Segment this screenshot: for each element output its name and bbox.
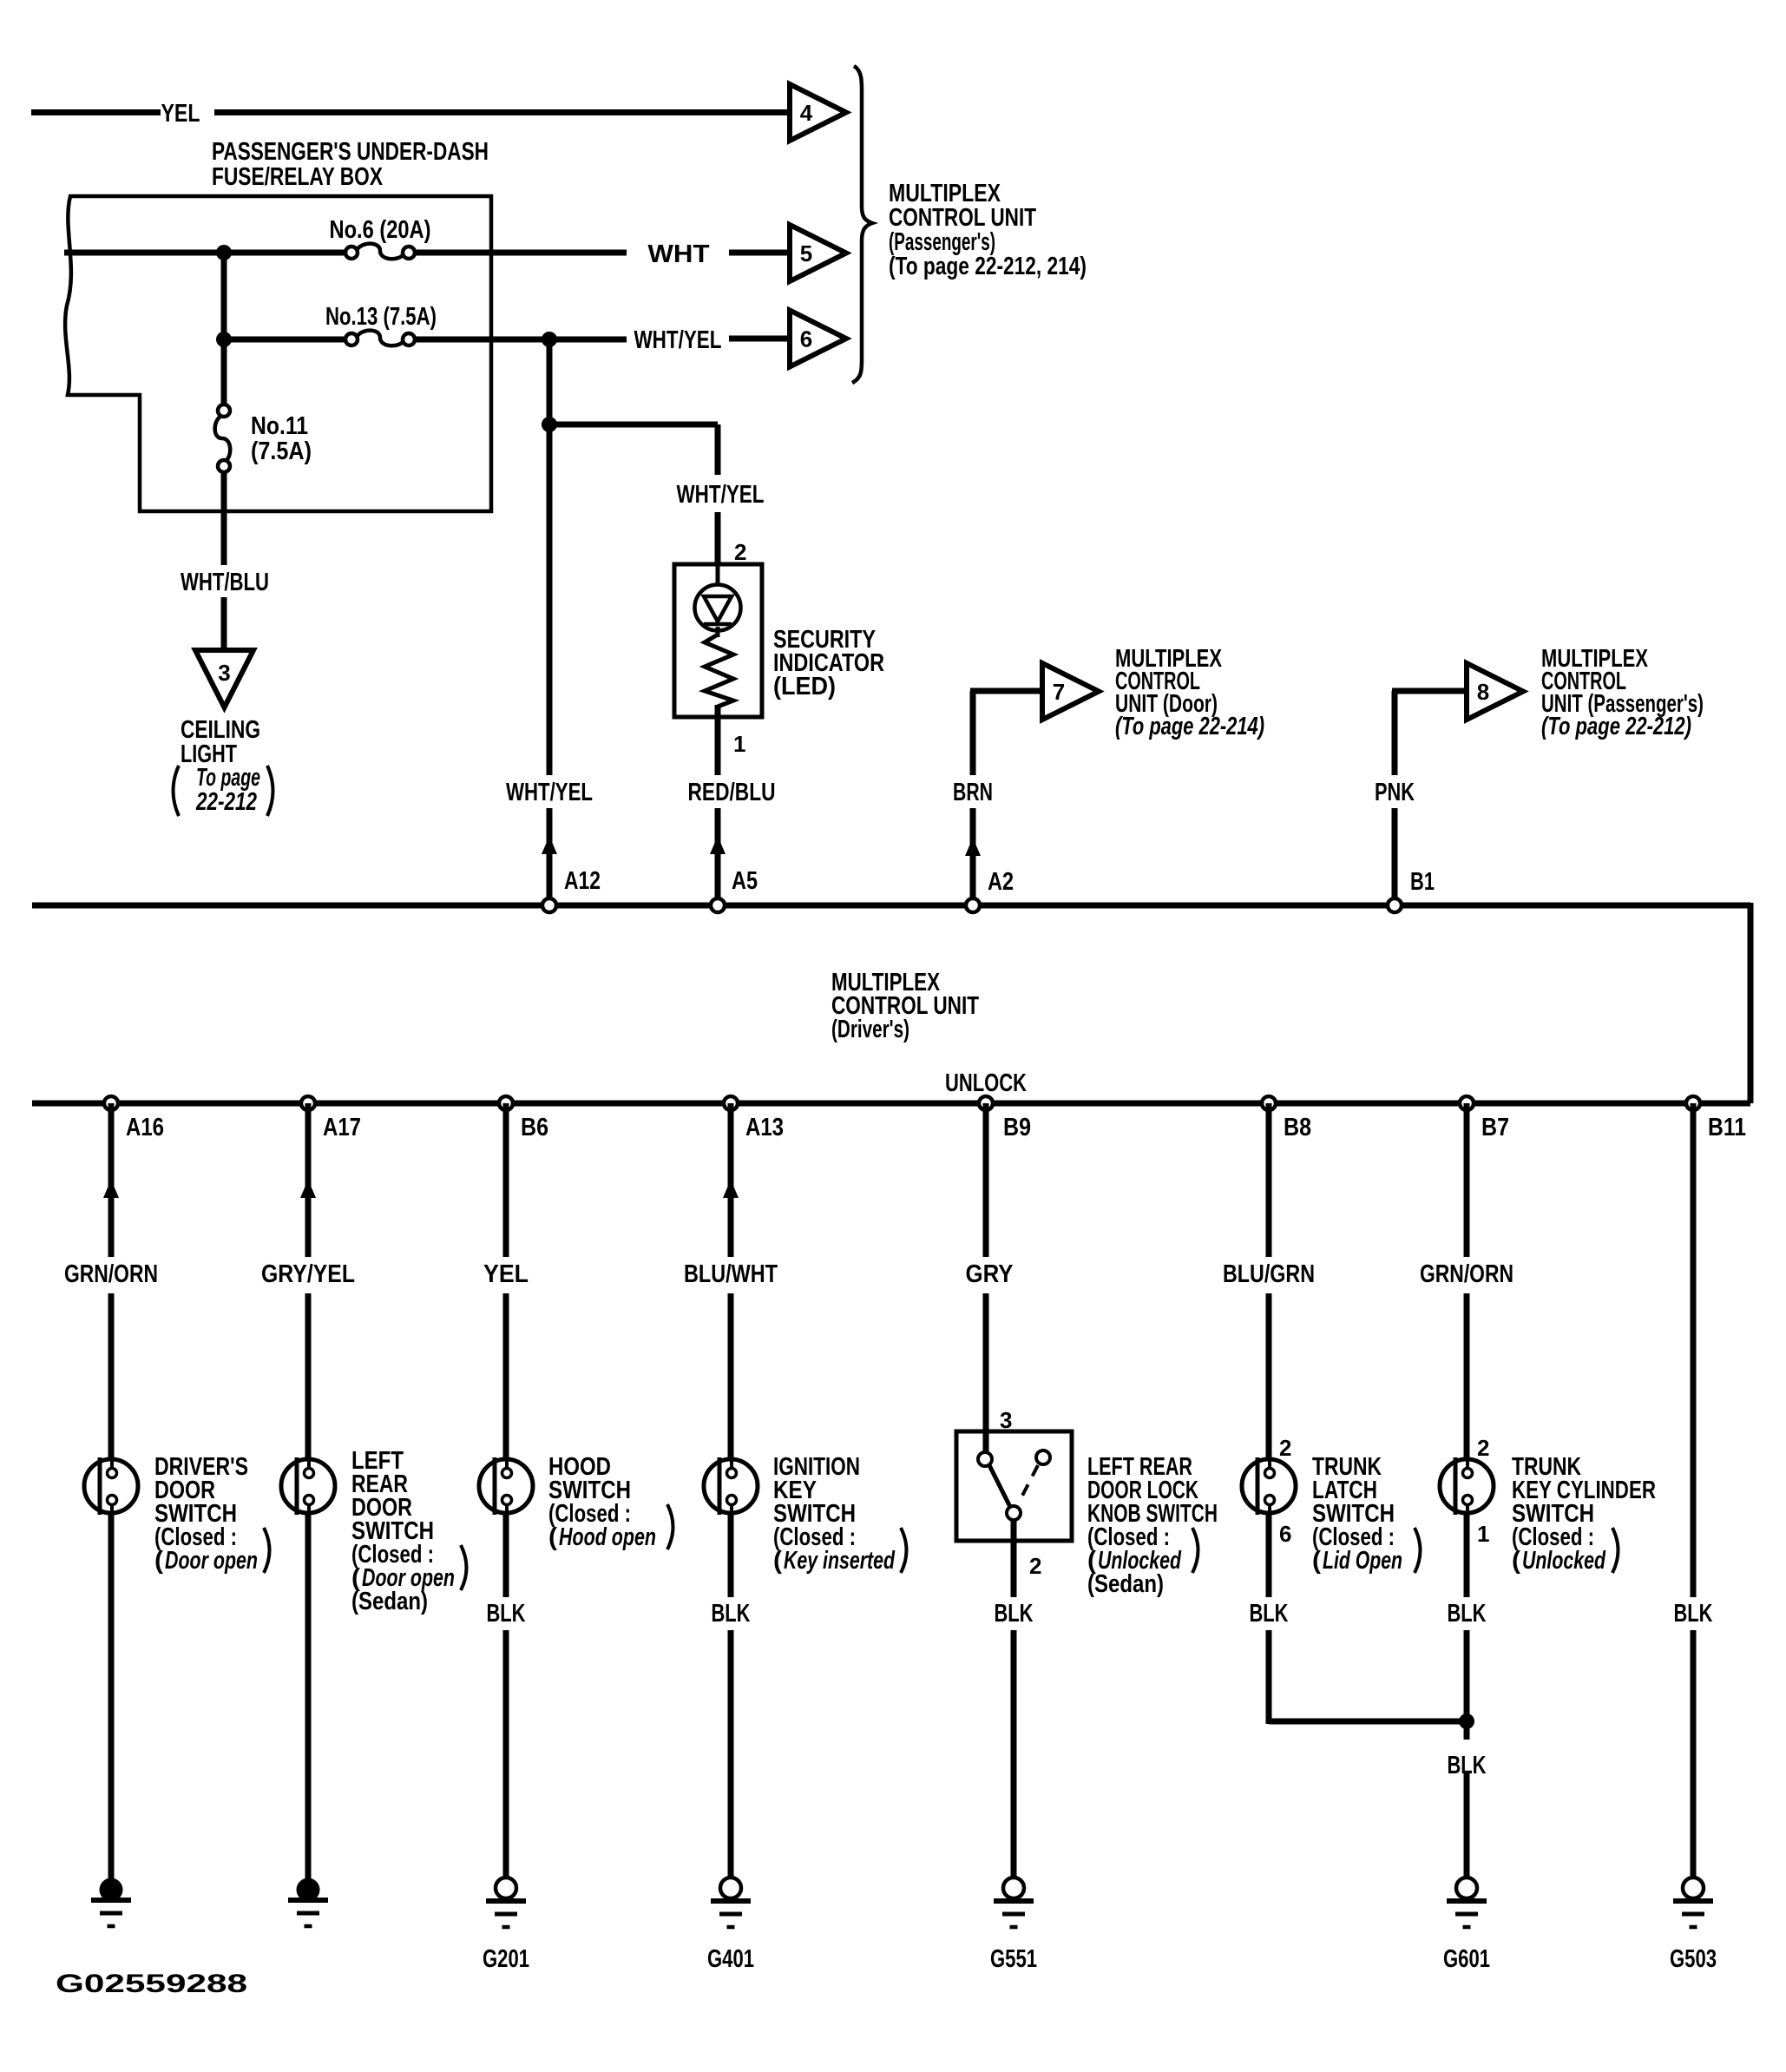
connector arrow 4 bbox=[790, 84, 846, 141]
label left rear door lock knob switch bbox=[1087, 1453, 1218, 1598]
label hood switch bbox=[548, 1453, 673, 1551]
security LED bbox=[695, 566, 741, 637]
fuse No.6 (20A) bbox=[330, 216, 431, 259]
svg-text:UNLOCK: UNLOCK bbox=[945, 1069, 1027, 1097]
connector arrow 8 bbox=[1467, 663, 1523, 720]
wire BLK trunk latch switch bbox=[1250, 1515, 1289, 1724]
svg-text:GRN/ORN: GRN/ORN bbox=[64, 1260, 158, 1288]
ground G601 bbox=[1443, 1878, 1490, 1973]
svg-text:B8: B8 bbox=[1284, 1114, 1311, 1141]
wire fuse row No.13 bbox=[224, 339, 791, 339]
junction No.13 row / WHT-YEL drop bbox=[542, 332, 557, 347]
svg-text:YEL: YEL bbox=[483, 1260, 529, 1288]
wire WHT/BLU to ceiling light bbox=[221, 472, 227, 654]
svg-text:(LED): (LED) bbox=[773, 673, 836, 701]
driver's door switch bbox=[84, 1457, 138, 1515]
wire branch to security indicator bbox=[547, 424, 718, 566]
fuse No.13 (7.5A) bbox=[325, 303, 437, 345]
wire BLU/GRN from B8 bbox=[1223, 1103, 1315, 1457]
label driver's door switch bbox=[154, 1453, 270, 1575]
arrowhead on A12 wire bbox=[542, 836, 557, 854]
svg-text:B11: B11 bbox=[1708, 1114, 1746, 1141]
svg-text:PNK: PNK bbox=[1375, 779, 1415, 806]
left rear door lock knob switch box bbox=[956, 1431, 1072, 1541]
svg-text:WHT/YEL: WHT/YEL bbox=[677, 481, 765, 509]
wire BLU/WHT from A13 bbox=[684, 1103, 778, 1457]
svg-text:A13: A13 bbox=[745, 1114, 784, 1141]
node B1 bbox=[1388, 898, 1402, 912]
trunk latch switch bbox=[1242, 1457, 1296, 1515]
node A5 bbox=[711, 898, 725, 912]
svg-text:G02559288: G02559288 bbox=[56, 1970, 247, 1998]
hood switch bbox=[479, 1457, 533, 1515]
wire trunk latch to trunk key cylinder junction bbox=[1269, 1719, 1470, 1725]
wire RED/BLU to A5 bbox=[715, 705, 721, 899]
svg-text:B9: B9 bbox=[1003, 1114, 1031, 1141]
svg-text:3: 3 bbox=[218, 660, 230, 686]
svg-text:(Sedan): (Sedan) bbox=[351, 1588, 428, 1615]
label trunk latch switch bbox=[1312, 1453, 1421, 1575]
connector arrow 5 bbox=[790, 225, 846, 281]
svg-text:BLK: BLK bbox=[487, 1600, 526, 1628]
svg-text:G503: G503 bbox=[1670, 1945, 1717, 1973]
svg-text:2: 2 bbox=[1279, 1435, 1291, 1461]
fuse No.11 (7.5A) vertical bbox=[215, 405, 312, 472]
connector arrow 7 bbox=[1042, 663, 1099, 720]
svg-text:2: 2 bbox=[1029, 1553, 1041, 1579]
svg-text:A16: A16 bbox=[126, 1114, 164, 1141]
security indicator box bbox=[674, 564, 762, 717]
ground G551 bbox=[990, 1878, 1037, 1973]
svg-text:Hood open: Hood open bbox=[559, 1523, 656, 1551]
svg-text:Unlocked: Unlocked bbox=[1522, 1547, 1606, 1575]
label ceiling light bbox=[174, 716, 273, 816]
label security indicator bbox=[773, 626, 884, 701]
svg-text:5: 5 bbox=[800, 240, 812, 266]
svg-text:B6: B6 bbox=[521, 1114, 548, 1141]
svg-text:A12: A12 bbox=[564, 867, 601, 895]
fuse/relay box outline with torn left edge bbox=[65, 196, 491, 511]
svg-text:GRY/YEL: GRY/YEL bbox=[261, 1260, 355, 1288]
label multiplex control unit passenger top bbox=[889, 180, 1087, 280]
wire left rear door switch to ground bbox=[305, 1515, 312, 1880]
svg-text:(To page 22-212): (To page 22-212) bbox=[1541, 713, 1691, 740]
label ignition key switch bbox=[773, 1453, 907, 1575]
ground G401 bbox=[707, 1878, 754, 1973]
svg-text:BLK: BLK bbox=[712, 1600, 751, 1628]
svg-text:8: 8 bbox=[1477, 679, 1489, 705]
security resistor bbox=[705, 635, 733, 707]
ground driver's door switch bbox=[91, 1878, 131, 1927]
svg-text:No.13 (7.5A): No.13 (7.5A) bbox=[325, 303, 437, 331]
svg-text:WHT: WHT bbox=[648, 240, 710, 268]
ignition key switch bbox=[704, 1457, 758, 1515]
svg-text:WHT/YEL: WHT/YEL bbox=[634, 326, 722, 354]
svg-text:BLU/GRN: BLU/GRN bbox=[1223, 1260, 1315, 1288]
wire YEL feed to connector 4 bbox=[31, 109, 791, 115]
svg-text:WHT/BLU: WHT/BLU bbox=[181, 569, 269, 596]
bus line multiplex control unit driver top bbox=[32, 903, 1750, 909]
wire GRN/ORN from B7 bbox=[1420, 1103, 1514, 1457]
svg-text:6: 6 bbox=[1279, 1521, 1291, 1547]
svg-text:RED/BLU: RED/BLU bbox=[688, 779, 776, 806]
svg-text:Door open: Door open bbox=[165, 1547, 258, 1575]
right vertical bus link bbox=[1748, 903, 1754, 1103]
node B9 bbox=[979, 1096, 1031, 1141]
svg-text:GRN/ORN: GRN/ORN bbox=[1420, 1260, 1514, 1288]
wire BLK ignition key switch to G401 bbox=[712, 1515, 751, 1877]
junction feed / No.13 row bbox=[216, 332, 232, 347]
wire fuse row No.6 bbox=[64, 250, 791, 256]
node A13 bbox=[724, 1096, 784, 1141]
svg-text:(: ( bbox=[1512, 1547, 1520, 1575]
wire GRY from B9 bbox=[966, 1103, 1014, 1452]
svg-text:2: 2 bbox=[734, 539, 746, 565]
junction feed / No.6 row bbox=[216, 245, 232, 260]
wire knob switch to G551 bbox=[1011, 1520, 1017, 1877]
arrowhead on A5 wire bbox=[710, 836, 726, 854]
wire GRN/ORN from A16 bbox=[64, 1103, 158, 1457]
bus line multiplex control unit driver bottom bbox=[32, 1101, 1750, 1107]
node B11 bbox=[1686, 1096, 1746, 1141]
wire BLK hood switch to G201 bbox=[487, 1515, 526, 1877]
svg-text:G401: G401 bbox=[707, 1945, 754, 1973]
junction trunk ground wires bbox=[1459, 1714, 1474, 1729]
label multiplex control unit passenger's (arrow 8) bbox=[1541, 645, 1704, 740]
svg-text:A2: A2 bbox=[988, 868, 1014, 896]
svg-text:No.6 (20A): No.6 (20A) bbox=[330, 216, 431, 244]
node B8 bbox=[1262, 1096, 1311, 1141]
label trunk key cylinder switch bbox=[1512, 1453, 1656, 1575]
svg-text:2: 2 bbox=[1477, 1435, 1489, 1461]
svg-text:1: 1 bbox=[1477, 1521, 1489, 1547]
svg-text:G201: G201 bbox=[483, 1945, 529, 1973]
wire BLK trunk key cylinder switch bbox=[1448, 1515, 1487, 1740]
label passenger's under-dash fuse/relay box bbox=[212, 138, 489, 191]
svg-text:(: ( bbox=[154, 1547, 163, 1575]
svg-text:7: 7 bbox=[1053, 679, 1065, 705]
node A2 bbox=[966, 898, 980, 912]
svg-text:BLK: BLK bbox=[1448, 1600, 1487, 1628]
svg-text:No.11: No.11 bbox=[251, 412, 308, 440]
ground G201 bbox=[483, 1878, 529, 1973]
wire PNK to B1 bbox=[1392, 691, 1468, 899]
svg-text:BLK: BLK bbox=[1250, 1600, 1289, 1628]
svg-text:FUSE/RELAY BOX: FUSE/RELAY BOX bbox=[212, 163, 384, 191]
svg-text:G551: G551 bbox=[990, 1945, 1037, 1973]
wire driver's door switch to ground bbox=[108, 1515, 115, 1880]
svg-text:B7: B7 bbox=[1481, 1114, 1509, 1141]
svg-text:B1: B1 bbox=[1410, 868, 1435, 896]
ground left rear door switch bbox=[288, 1878, 328, 1927]
svg-text:BLK: BLK bbox=[995, 1600, 1034, 1628]
svg-text:PASSENGER'S UNDER-DASH: PASSENGER'S UNDER-DASH bbox=[212, 138, 489, 166]
svg-text:BLU/WHT: BLU/WHT bbox=[684, 1260, 778, 1288]
svg-text:(Sedan): (Sedan) bbox=[1087, 1570, 1164, 1598]
svg-text:YEL: YEL bbox=[161, 100, 200, 128]
svg-text:(To page 22-214): (To page 22-214) bbox=[1115, 713, 1264, 740]
label left rear door switch bbox=[351, 1447, 467, 1615]
junction WHT/YEL branch bbox=[542, 417, 557, 432]
node A17 bbox=[301, 1096, 361, 1141]
trunk key cylinder switch bbox=[1440, 1457, 1494, 1515]
svg-text:Lid Open: Lid Open bbox=[1323, 1547, 1402, 1575]
knob switch contacts and lever bbox=[978, 1450, 1050, 1520]
svg-text:(7.5A): (7.5A) bbox=[251, 437, 312, 465]
svg-text:(: ( bbox=[1312, 1547, 1321, 1575]
connector arrow 6 bbox=[790, 311, 846, 367]
wire YEL from B6 bbox=[483, 1103, 529, 1457]
svg-text:A5: A5 bbox=[732, 867, 758, 895]
svg-text:A17: A17 bbox=[323, 1114, 361, 1141]
svg-text:(: ( bbox=[773, 1547, 782, 1575]
svg-text:BLK: BLK bbox=[1448, 1752, 1487, 1779]
svg-text:GRY: GRY bbox=[966, 1260, 1014, 1288]
svg-text:6: 6 bbox=[800, 326, 812, 352]
label multiplex control unit driver's bbox=[831, 969, 979, 1043]
svg-text:WHT/YEL: WHT/YEL bbox=[506, 779, 593, 806]
svg-text:(Driver's): (Driver's) bbox=[831, 1016, 909, 1043]
wire BLK to G601 bbox=[1448, 1752, 1487, 1877]
left rear door switch bbox=[281, 1457, 335, 1515]
vertical feed wire inside fuse box bbox=[221, 253, 227, 404]
brace multiplex control unit passenger bbox=[852, 66, 872, 383]
svg-text:BRN: BRN bbox=[953, 779, 993, 806]
wire WHT/YEL vertical to A12 bbox=[547, 339, 553, 899]
label multiplex control unit door bbox=[1115, 645, 1264, 740]
connector arrow 3 (down, to ceiling light) bbox=[195, 650, 253, 707]
wire from B11 bbox=[1691, 1103, 1697, 1879]
svg-text:(To page 22-212, 214): (To page 22-212, 214) bbox=[889, 253, 1087, 280]
svg-text:4: 4 bbox=[800, 100, 813, 126]
svg-text:G601: G601 bbox=[1443, 1945, 1490, 1973]
node A16 bbox=[104, 1096, 164, 1141]
wire GRY/YEL from A17 bbox=[261, 1103, 355, 1457]
svg-text:3: 3 bbox=[1000, 1407, 1012, 1433]
arrowhead on A2 wire bbox=[965, 838, 981, 856]
svg-text:22-212: 22-212 bbox=[195, 788, 257, 816]
node B7 bbox=[1460, 1096, 1509, 1141]
svg-text:1: 1 bbox=[733, 731, 745, 757]
svg-text:Key inserted: Key inserted bbox=[784, 1547, 896, 1575]
wire BRN to A2 bbox=[970, 691, 1044, 899]
svg-text:(: ( bbox=[548, 1523, 557, 1551]
svg-text:BLK: BLK bbox=[1674, 1600, 1713, 1628]
ground G503 bbox=[1670, 1878, 1717, 1973]
node B6 bbox=[499, 1096, 548, 1141]
node A12 bbox=[542, 898, 556, 912]
